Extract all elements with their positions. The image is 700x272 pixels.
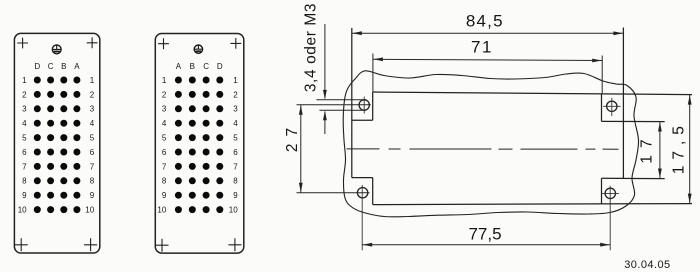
mounting hole top-right [607,101,617,111]
svg-text:4: 4 [162,119,167,128]
svg-text:5: 5 [233,134,238,143]
dimension 71 [373,54,602,94]
view2 corner cross top-right [230,38,241,49]
svg-text:6: 6 [233,148,238,157]
view2 corner cross bottom-right [228,238,241,251]
svg-text:10: 10 [157,206,166,215]
svg-text:27: 27 [284,121,301,152]
cutout left edge upper segment [372,92,374,120]
dimension 17 [659,122,661,179]
view2 corner cross top-left [158,38,169,49]
svg-text:17: 17 [639,132,656,163]
svg-text:9: 9 [162,191,167,200]
dimension 84,5 [352,32,624,34]
svg-text:3: 3 [233,105,238,114]
svg-text:2: 2 [162,90,167,99]
svg-text:84,5: 84,5 [466,12,504,31]
view1 row numbers 1-10 [18,76,95,215]
dimension 27 [297,105,371,193]
view2 PE screw symbol [194,45,202,53]
cutout ear step top-right / 17 top extension [602,120,665,122]
cutout top edge / 17,5 top extension [373,92,692,95]
svg-text:A: A [74,62,80,71]
cutout right edge upper segment [601,93,603,121]
svg-text:77,5: 77,5 [468,225,501,244]
view1 corner cross bottom-right [84,238,97,251]
view1 corner cross top-right [87,37,98,48]
view2 corner cross bottom-left [156,239,169,252]
cutout bottom edge / 17,5 bottom extension [373,204,692,205]
svg-text:9: 9 [233,191,238,200]
svg-text:1: 1 [162,76,167,85]
svg-text:C: C [203,62,209,71]
svg-text:3: 3 [90,105,95,114]
svg-text:1: 1 [233,76,238,85]
svg-text:5: 5 [162,134,167,143]
svg-text:6: 6 [162,148,167,157]
hole BL vertical center mark / 77,5 extension [361,185,363,250]
panel outline (hand-drawn wavy) [343,71,638,217]
svg-text:4: 4 [22,119,27,128]
view1 corner cross bottom-left [15,238,28,251]
svg-text:7: 7 [162,162,167,171]
svg-text:17,5: 17,5 [671,120,688,174]
svg-text:B: B [190,62,195,71]
svg-text:D: D [217,62,223,71]
cutout right edge lower segment [601,178,603,204]
svg-text:2: 2 [90,90,95,99]
horizontal center line (dash-dot) [347,148,623,150]
cutout ear step bottom-right / 17 bottom extension [602,177,665,179]
view2 row numbers 1-10 [157,76,238,215]
cutout right long edge / 84,5 right extension [622,28,624,179]
view1 PE screw symbol [52,45,61,54]
svg-text:7: 7 [233,162,238,171]
svg-text:A: A [176,62,182,71]
svg-text:8: 8 [90,177,95,186]
connector face view 1 (D C B A) outline [14,33,99,253]
mounting hole top-left [359,100,369,110]
svg-text:30.04.05: 30.04.05 [624,259,670,271]
svg-text:71: 71 [471,38,493,57]
dimension 3,4 oder M3 [316,24,366,134]
svg-text:7: 7 [90,162,95,171]
dimension 77,5 [362,244,610,246]
mounting hole bottom-left [357,188,367,198]
svg-text:1: 1 [22,76,27,85]
svg-text:B: B [61,62,66,71]
hole TR center marks [603,98,621,116]
svg-text:10: 10 [18,206,27,215]
connector face view 2 (A B C D) outline [155,34,244,254]
dimension 17,5 [689,95,691,204]
view2 column labels A B C D [176,62,223,71]
view1 corner cross top-left [17,38,28,49]
cutout outline [352,28,692,205]
mounting hole bottom-right [605,188,615,198]
svg-text:5: 5 [90,134,95,143]
svg-text:10: 10 [229,206,238,215]
svg-text:8: 8 [22,177,27,186]
svg-text:4: 4 [90,119,95,128]
svg-text:3: 3 [22,105,27,114]
svg-text:D: D [34,62,40,71]
svg-text:7: 7 [22,162,27,171]
svg-text:9: 9 [90,191,95,200]
view2 contact grid 4x10 [175,77,223,214]
svg-text:3: 3 [162,105,167,114]
hole TL vertical center mark [363,97,365,114]
svg-text:1: 1 [90,76,95,85]
svg-text:8: 8 [233,177,238,186]
svg-text:6: 6 [90,148,95,157]
hole BR horizontal center mark [602,186,619,251]
cutout ear step bottom-left [352,177,373,179]
cutout left edge lower segment [372,178,374,205]
svg-text:2: 2 [233,90,238,99]
svg-text:4: 4 [233,119,238,128]
svg-text:3,4 oder M3: 3,4 oder M3 [303,3,320,92]
view1 contact grid 4x10 [34,77,81,214]
view1 column labels D C B A [34,62,80,71]
svg-text:2: 2 [22,90,27,99]
svg-text:5: 5 [22,134,27,143]
svg-text:8: 8 [162,177,167,186]
svg-text:C: C [48,62,54,71]
cutout left long edge / 84,5 left extension [351,28,353,178]
cutout ear step top-left [352,119,373,121]
svg-text:9: 9 [22,191,27,200]
svg-text:6: 6 [22,148,27,157]
svg-text:10: 10 [85,206,94,215]
